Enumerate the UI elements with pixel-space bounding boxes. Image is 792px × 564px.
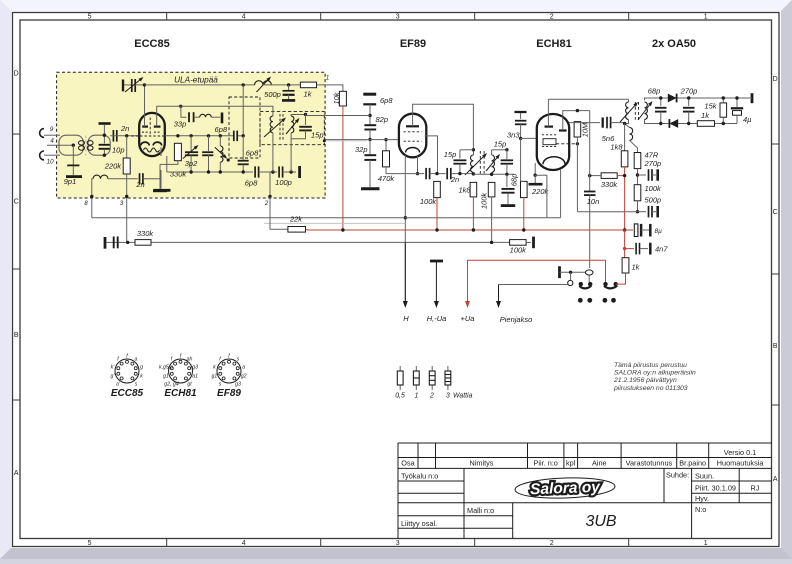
svg-text:s: s [135, 381, 138, 387]
T2 secondary bottom wire [473, 173, 514, 175]
svg-text:2n: 2n [450, 175, 459, 184]
capacitor 6p8 series [254, 166, 256, 177]
svg-text:4: 4 [242, 540, 246, 547]
svg-text:2: 2 [550, 540, 554, 547]
resistor 100k AVC out [510, 240, 526, 246]
svg-text:100k: 100k [510, 246, 528, 255]
svg-text:500p: 500p [645, 196, 662, 205]
svg-text:ECH81: ECH81 [164, 388, 197, 399]
bevel frame left face [0, 0, 11, 559]
svg-text:kpl: kpl [566, 459, 576, 468]
svg-text:Nimitys: Nimitys [470, 459, 494, 468]
svg-text:5n6: 5n6 [602, 134, 615, 143]
switch contact pair left [579, 282, 583, 286]
ECH81 top wire to oscillator [548, 98, 628, 100]
svg-text:6p8: 6p8 [215, 125, 228, 134]
detector output terminal [751, 93, 754, 103]
left margin zone ticks [13, 133, 21, 135]
svg-text:1k: 1k [701, 111, 710, 120]
svg-text:A: A [773, 476, 778, 483]
svg-text:ECC85: ECC85 [111, 388, 144, 399]
ECH81 triode anode bar [559, 129, 567, 131]
IF transformer T2 left coil [472, 150, 474, 155]
svg-text:B: B [773, 343, 778, 350]
ECH81 heater wire [560, 169, 562, 218]
switch dots row [578, 298, 583, 303]
svg-text:k,g5,s: k,g5,s [159, 364, 173, 370]
svg-text:270p: 270p [680, 87, 698, 96]
tube socket EF89 [217, 359, 241, 383]
svg-text:piirustukseen no 011303: piirustukseen no 011303 [613, 385, 688, 392]
svg-text:6p8: 6p8 [380, 96, 393, 105]
svg-text:C: C [14, 199, 19, 206]
svg-text:1: 1 [704, 540, 708, 547]
svg-text:Pienjakso: Pienjakso [500, 315, 533, 324]
capacitor coupling a [425, 168, 427, 179]
T2 right top wire [492, 149, 507, 151]
capacitor 10n [589, 111, 591, 191]
svg-text:22k: 22k [289, 215, 303, 224]
IF transformer T2 core [479, 151, 481, 174]
svg-text:ECC85: ECC85 [134, 38, 169, 50]
svg-text:ah: ah [187, 357, 193, 363]
svg-text:Suhde:: Suhde: [666, 471, 689, 480]
ECC85 cathodes [141, 142, 149, 145]
discriminator coil right [291, 116, 294, 133]
resistor 220k [126, 136, 128, 158]
wire grid line triode2 [165, 135, 234, 137]
capacitor 32p [364, 154, 376, 156]
red wire +Ua to contact [605, 260, 607, 282]
EF89 anode elbow wire [425, 136, 438, 174]
svg-text:330k: 330k [601, 180, 619, 189]
capacitor 270p det [688, 98, 690, 106]
svg-text:3n3: 3n3 [507, 130, 520, 139]
capacitor 6p8 parallel [242, 136, 244, 160]
oscillator core [634, 102, 636, 122]
svg-text:g: g [140, 364, 143, 370]
svg-text:100k: 100k [645, 184, 663, 193]
variable inductor 500p line [242, 83, 245, 86]
heater choke [93, 175, 108, 179]
svg-text:82p: 82p [376, 115, 389, 124]
svg-text:B: B [14, 332, 19, 339]
svg-text:Työkalu n:o: Työkalu n:o [401, 472, 438, 481]
svg-text:1k8: 1k8 [610, 143, 623, 152]
resistor 10M [574, 122, 581, 137]
svg-text:100k: 100k [480, 192, 489, 210]
svg-text:k: k [140, 374, 143, 380]
svg-text:500p: 500p [264, 90, 281, 99]
svg-text:s: s [237, 357, 240, 363]
svg-text:g1: g1 [212, 374, 218, 380]
EF89 screen wire [417, 156, 419, 174]
light gray wire [264, 222, 405, 224]
terminal H minus Ua [430, 260, 443, 263]
discriminator core [279, 114, 281, 140]
capacitor 4n7 [626, 248, 634, 250]
svg-text:2n: 2n [135, 180, 144, 189]
ECH81 grid wire [521, 137, 538, 139]
svg-text:2x OA50: 2x OA50 [652, 38, 696, 50]
resistor 47R [634, 153, 641, 169]
resistor 22k [288, 227, 306, 233]
svg-text:270p: 270p [644, 159, 662, 168]
svg-text:15k: 15k [704, 102, 717, 111]
svg-text:330k: 330k [137, 229, 155, 238]
arrow +Ua red [468, 259, 606, 261]
svg-text:Suun.: Suun. [695, 472, 714, 481]
capacitor 5n6 [569, 122, 600, 124]
wire grid triode1 [110, 135, 139, 137]
svg-text:5: 5 [88, 14, 92, 21]
wire terminal 10 [44, 154, 60, 156]
resistor 100k det [634, 185, 641, 201]
svg-text:3: 3 [396, 540, 400, 547]
svg-text:1k: 1k [304, 90, 313, 99]
switch contact pair right [603, 282, 607, 286]
tube socket ECH81 [169, 359, 193, 383]
ECH81 oscillator grid dash line [556, 143, 577, 145]
tube ECH81 V3 [537, 114, 569, 170]
capacitor 2n grid [112, 130, 114, 142]
terminal bar 100p [298, 166, 301, 178]
ECH81 cathode arc [543, 157, 565, 165]
capacitor 8u electrolytic [626, 229, 633, 231]
svg-text:1: 1 [326, 76, 329, 82]
svg-text:100p: 100p [275, 178, 292, 187]
IF transformer T2 right coil [492, 155, 495, 172]
oscillator variable coil [219, 136, 221, 146]
top margin zone ticks [166, 13, 168, 21]
wire terminal 9 [44, 134, 60, 136]
detector bottom rail [648, 123, 697, 125]
capacitor 6p8 series grid [233, 131, 235, 142]
discriminator coil left [181, 106, 273, 116]
svg-text:2n: 2n [120, 124, 129, 133]
svg-text:g3: g3 [192, 364, 198, 370]
resistor 15k [720, 103, 727, 117]
capacitor 15p primary [460, 149, 474, 151]
svg-text:g3: g3 [235, 381, 241, 387]
svg-text:EF89: EF89 [400, 38, 426, 50]
resistor 1k8 [470, 182, 477, 197]
discriminator top wire [291, 115, 305, 117]
capacitor 4u electrolytic [736, 98, 738, 107]
svg-text:9: 9 [50, 126, 54, 133]
svg-text:5: 5 [88, 540, 92, 547]
svg-text:8µ: 8µ [655, 228, 663, 235]
detector top rail [648, 97, 748, 99]
ECC85 anode 2 [154, 125, 161, 127]
capacitor 68p [506, 174, 508, 187]
svg-text:C: C [773, 209, 778, 216]
trimmer 3p2 [190, 136, 192, 151]
wattage legend [399, 366, 401, 371]
svg-text:68p: 68p [510, 174, 519, 187]
svg-text:D: D [773, 76, 778, 83]
svg-text:9p1: 9p1 [64, 177, 77, 186]
svg-text:10p: 10p [112, 146, 125, 155]
svg-text:4µ: 4µ [743, 115, 752, 124]
svg-text:33p: 33p [174, 120, 187, 129]
AVC input capacitor [104, 237, 107, 249]
svg-text:N:o: N:o [695, 505, 706, 514]
ECH81 cathode ground [534, 163, 536, 175]
AVC gray wire [107, 241, 510, 243]
input transformer T1 left loop [59, 135, 83, 155]
svg-text:6p8: 6p8 [245, 179, 258, 188]
wire from discriminator top to chain [324, 115, 370, 117]
svg-text:H,-Ua: H,-Ua [427, 314, 447, 323]
arrow H heater [404, 242, 406, 301]
bevel frame bottom face [0, 548, 792, 559]
svg-text:1: 1 [704, 14, 708, 21]
svg-text:220k: 220k [104, 162, 123, 171]
svg-text:4: 4 [50, 137, 54, 144]
svg-text:g2, g4: g2, g4 [164, 381, 179, 387]
cathode ground triode2 [166, 156, 168, 172]
arrow Pienjakso [499, 284, 568, 286]
svg-text:15p: 15p [311, 131, 324, 140]
capacitor 270p coupling [638, 174, 647, 176]
oscillator transformer left coil [628, 99, 630, 102]
bevel frame top face [0, 0, 792, 11]
resistor 1k8 osc [623, 122, 626, 125]
svg-text:Br.paino: Br.paino [679, 459, 706, 468]
svg-text:D: D [14, 71, 19, 78]
capacitor 82p [364, 124, 376, 126]
svg-text:330k: 330k [170, 170, 188, 179]
wire terminal 4 [47, 144, 73, 146]
coil 33p branch [200, 114, 212, 117]
capacitor 10p [103, 125, 105, 144]
terminal 10 [40, 151, 44, 160]
resistor 470k [385, 140, 387, 151]
capacitor 68p det [660, 98, 662, 106]
svg-text:Versio 0.1: Versio 0.1 [724, 448, 756, 457]
ECH81 grids [542, 134, 557, 136]
resistor 100k IF [434, 181, 441, 197]
resistor 1k det [697, 121, 714, 127]
diode OA50 top [668, 94, 677, 103]
svg-text:2: 2 [550, 14, 554, 21]
svg-text:Aine: Aine [592, 459, 607, 468]
ULA-etupaa yellow region [57, 72, 326, 198]
tube ECC85 V1 [139, 113, 165, 156]
tuning trimmer capacitor antenna [122, 80, 124, 92]
bevel frame right face [781, 0, 792, 559]
tuner bottom wire [167, 171, 253, 173]
terminal 9 [40, 129, 44, 138]
diode OA50 bottom [669, 119, 678, 128]
svg-text:a: a [135, 357, 138, 363]
resistor 1k anode [300, 82, 316, 88]
svg-text:1k: 1k [632, 263, 641, 272]
ECC85 anode 1 [142, 125, 148, 127]
svg-text:k: k [213, 364, 216, 370]
svg-text:SALORA oy:n alkuperäisiin: SALORA oy:n alkuperäisiin [614, 370, 696, 377]
svg-text:a1: a1 [192, 374, 198, 380]
svg-text:2: 2 [429, 393, 434, 400]
svg-text:4: 4 [242, 14, 246, 21]
svg-text:s: s [219, 381, 222, 387]
title block grid [398, 443, 772, 539]
svg-text:10M: 10M [581, 122, 590, 137]
bottom margin zone ticks [166, 539, 168, 547]
svg-text:32p: 32p [355, 145, 368, 154]
svg-text:3: 3 [396, 14, 400, 21]
capacitor 15p discriminator [305, 115, 307, 126]
input transformer core [85, 136, 87, 156]
svg-text:10: 10 [46, 159, 54, 166]
padder capacitor [208, 136, 210, 151]
svg-text:15p: 15p [494, 140, 507, 149]
resistor 100k AVC [488, 182, 495, 197]
pin 2 wire to 22k [269, 172, 271, 196]
black bus wire [92, 217, 561, 219]
capacitor 500p bypass [288, 85, 290, 91]
svg-text:g1: g1 [163, 374, 169, 380]
svg-text:g2: g2 [241, 374, 247, 380]
EF89 cathode arc [406, 148, 420, 153]
svg-text:Malli n:o: Malli n:o [467, 506, 494, 515]
discriminator dashed box [260, 112, 324, 145]
svg-text:Osa: Osa [401, 459, 415, 468]
resistor 330k osc grid [601, 173, 617, 179]
svg-text:EF89: EF89 [217, 388, 241, 399]
svg-text:H: H [403, 314, 409, 323]
svg-text:ULA-etupää: ULA-etupää [174, 76, 218, 85]
svg-text:15p: 15p [444, 150, 457, 159]
capacitor 100p [278, 166, 280, 177]
svg-text:3UB: 3UB [585, 513, 616, 530]
svg-text:Liittyy osal.: Liittyy osal. [401, 519, 437, 528]
top wire to pin 1 [145, 84, 255, 86]
input transformer T1 right loop [88, 135, 110, 155]
discriminator out wire [324, 140, 367, 142]
wire 10M to 500p [578, 211, 638, 213]
svg-text:10n: 10n [587, 197, 600, 206]
pilot lamp [585, 270, 593, 275]
coupling coil [625, 124, 630, 128]
svg-text:10k: 10k [332, 91, 341, 104]
svg-text:6p8: 6p8 [246, 149, 259, 158]
tube EF89 V2 [399, 114, 426, 158]
svg-text:Piirt. 30.1.09: Piirt. 30.1.09 [695, 484, 736, 493]
svg-text:Wattia: Wattia [453, 393, 473, 400]
antenna stub bar [99, 122, 111, 125]
EF89 heater wire to H [404, 155, 406, 305]
ground chain [361, 187, 380, 190]
svg-text:Huomautuksia: Huomautuksia [717, 459, 765, 468]
capacitor 500p det [638, 211, 647, 213]
EF89 output wire [386, 173, 424, 175]
Salora oy logo [515, 476, 616, 499]
wire 6p8 to top [242, 85, 244, 136]
right margin zone ticks [772, 143, 780, 145]
capacitor 2n cathode [139, 173, 141, 184]
capacitor 15p secondary [501, 159, 513, 161]
oscillator dashed box [229, 97, 260, 158]
svg-text:A: A [14, 470, 19, 477]
ECH81 heptode anode bar [545, 125, 554, 127]
EF89 anode top wire [413, 104, 474, 150]
resistor 220k ECH81 [520, 138, 522, 181]
svg-text:ECH81: ECH81 [536, 38, 571, 50]
svg-text:1: 1 [415, 393, 419, 400]
svg-text:100k: 100k [420, 197, 438, 206]
input transformer coupling loops [79, 141, 85, 145]
svg-text:Tämä piirustus perustuu: Tämä piirustus perustuu [614, 362, 687, 369]
svg-text:RJ: RJ [751, 484, 760, 493]
svg-text:Hyv.: Hyv. [695, 494, 709, 503]
switch terminal bar [558, 266, 561, 278]
resistor 1k output [624, 230, 626, 258]
EF89 grids dashed [404, 131, 422, 133]
svg-text:3: 3 [446, 393, 450, 400]
red wire 10k to bus [342, 106, 344, 230]
svg-text:21.2.1956 päivättyyn: 21.2.1956 päivättyyn [613, 377, 677, 384]
svg-text:gt: gt [187, 381, 192, 387]
capacitor 9p1 [72, 145, 74, 164]
svg-text:470k: 470k [378, 174, 396, 183]
resistor 330k tuner [174, 143, 181, 160]
svg-text:68p: 68p [648, 87, 661, 96]
svg-text:+Ua: +Ua [461, 314, 475, 323]
capacitor 33p branch [181, 106, 187, 117]
capacitor 3n3 [520, 112, 522, 119]
tube socket ECC85 [115, 359, 139, 383]
oscillator transformer right coil [645, 102, 648, 119]
svg-text:4n7: 4n7 [655, 245, 668, 254]
red supply bus [306, 228, 634, 231]
switch NC circle [570, 272, 572, 280]
red wire osc to bus [624, 176, 626, 230]
wire discriminator to EF89 grid [324, 139, 399, 141]
ECC85 grids dashed [142, 131, 149, 133]
svg-text:Varastotunnus: Varastotunnus [626, 459, 673, 468]
EF89 anode bar [406, 125, 419, 127]
svg-text:2: 2 [264, 201, 269, 207]
ground 68p [501, 204, 515, 207]
cathode ground [160, 170, 162, 189]
svg-text:1k8: 1k8 [459, 186, 472, 195]
svg-text:Salora oy: Salora oy [530, 479, 602, 498]
svg-text:a: a [242, 364, 245, 370]
capacitor 6p8 chain top [363, 93, 376, 96]
svg-text:0,5: 0,5 [395, 393, 405, 400]
capacitor 2n coupling [446, 168, 448, 179]
resistor 10k [339, 91, 346, 106]
resistor 330k AVC [135, 240, 151, 246]
svg-text:Piir. n:o: Piir. n:o [534, 459, 558, 468]
